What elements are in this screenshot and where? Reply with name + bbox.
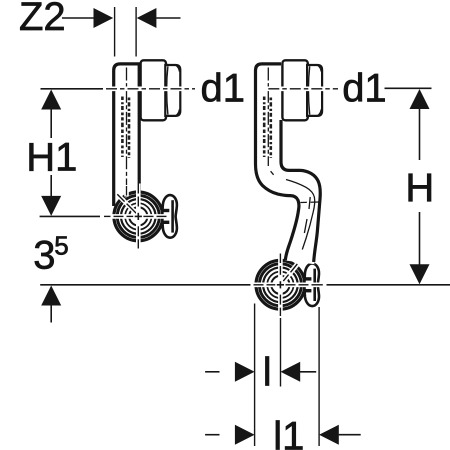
svg-text:d1: d1 (342, 66, 387, 110)
node: left flange clip (162, 195, 177, 238)
node: H arrow down (410, 264, 430, 284)
node: left flange ring 3 (121, 199, 156, 234)
svg-text:l: l (263, 351, 272, 395)
wire: Z2 dimension tail left (62, 17, 94, 19)
svg-text:5: 5 (54, 231, 68, 261)
node: H1 arrow up (41, 90, 61, 110)
wire: extension line flange center (280, 318, 282, 387)
node: l1 arrow left (235, 425, 255, 445)
wire: right tube centerline (dash-dot) (267, 68, 269, 167)
node: l arrow left (235, 362, 255, 382)
node: left flange inner ring (129, 207, 147, 225)
svg-text:3: 3 (33, 234, 55, 278)
wire: right lower tube axis (dash-dot cased) (299, 197, 310, 254)
node: right flange center plus (277, 284, 284, 286)
wire: right tube joint line (301, 201, 320, 204)
wire: left clip nub top (163, 209, 170, 212)
svg-text:l1: l1 (273, 415, 304, 450)
wire: left flange vertical centerline (136, 184, 141, 249)
wire: left facet curve (167, 66, 168, 114)
wire: right flange horizontal centerline casing (250, 282, 323, 287)
wire: l dimension tail dash (205, 371, 219, 373)
wire: left flange horizontal centerline casing (103, 214, 169, 219)
svg-text:H: H (405, 166, 434, 210)
node: right fitting nut block (282, 60, 307, 120)
wire: H dimension line lower (419, 212, 421, 266)
wire: Z2 extension line left (114, 7, 116, 57)
node: H1 arrow down (41, 196, 61, 216)
wire: l1 dimension tail dash (205, 434, 219, 436)
wire: right bend axis dash (271, 171, 274, 175)
wire: H dimension line upper (419, 108, 421, 161)
wire: baseline arrow stem (50, 304, 52, 323)
node: H arrow up (410, 89, 430, 109)
wire: Z2 extension line right (135, 7, 137, 57)
node: l1 arrow right (319, 425, 339, 445)
node: left fitting nut block (141, 60, 166, 120)
node: left flange outer ring (114, 192, 163, 241)
node: left flange ring 4 (125, 203, 151, 229)
wire: Z2 dimension tail right (156, 17, 180, 19)
wire: d1 left leader line (104, 87, 195, 92)
node: right tube lettering columns (263, 97, 266, 158)
wire: d1 right leader line (259, 87, 338, 92)
wire: left clip nub bottom (163, 221, 170, 224)
svg-text:d1: d1 (201, 66, 246, 110)
svg-text:Z2: Z2 (19, 0, 66, 39)
node: right flange ring 4 (267, 272, 293, 298)
wire: right fitting S-bend tube (256, 64, 321, 264)
wire: left flange diagonal axis (white cased) (119, 196, 137, 214)
wire: left tube centerline end over ring (124, 185, 129, 197)
wire: left tube centerline (dash-dot) (126, 68, 128, 191)
wire: right flange vertical centerline (278, 254, 283, 317)
wire: extension line flange left tangent (254, 304, 256, 447)
node: right fitting hex facets (307, 65, 322, 116)
wire: H1 bottom reference line (40, 215, 100, 217)
node: right flange ring 3 (263, 268, 298, 303)
node: right flange inner ring (271, 276, 289, 294)
node: right flange outer ring (256, 260, 305, 309)
wire: right clip inner band (313, 269, 316, 301)
wire: right bend flow line (286, 180, 315, 250)
wire: right facet curve (308, 66, 309, 114)
node: right flange clip (304, 263, 319, 306)
wire: baseline right segment (327, 284, 450, 286)
wire: d1 right line to H (385, 87, 432, 89)
node: l arrow right (281, 362, 301, 382)
wire: right facet chamfer arcs (318, 65, 322, 115)
wire: left fitting tube body (114, 64, 140, 206)
wire: l dimension tail right (300, 371, 316, 373)
wire: l1 dimension tail right (339, 434, 361, 436)
wire: H1 dimension line upper (50, 108, 52, 138)
node: left tube lettering columns (121, 97, 124, 158)
node: left flange center plus (135, 215, 142, 217)
wire: extension line clip right (318, 307, 320, 446)
svg-text:H1: H1 (26, 136, 77, 180)
node: Z2 arrow left (94, 8, 114, 28)
wire: right clip nub top (305, 277, 312, 280)
node: left flange disc (113, 191, 165, 243)
node: left fitting hex facets (165, 65, 180, 116)
node: left flange ring 2 (117, 195, 159, 237)
wire: left facet chamfer arcs (176, 65, 180, 115)
node: Z2 arrow right (137, 8, 157, 28)
node: baseline arrow up (below line) (41, 286, 61, 306)
wire: baseline left segment (40, 284, 250, 286)
node: right flange ring 2 (259, 264, 301, 306)
wire: right flange diagonal axis (white cased) (282, 264, 298, 283)
wire: left clip inner band (171, 200, 174, 232)
wire: right clip nub bottom (305, 289, 312, 292)
wire: H1 dimension line lower (50, 175, 52, 197)
node: right flange disc (255, 259, 307, 311)
